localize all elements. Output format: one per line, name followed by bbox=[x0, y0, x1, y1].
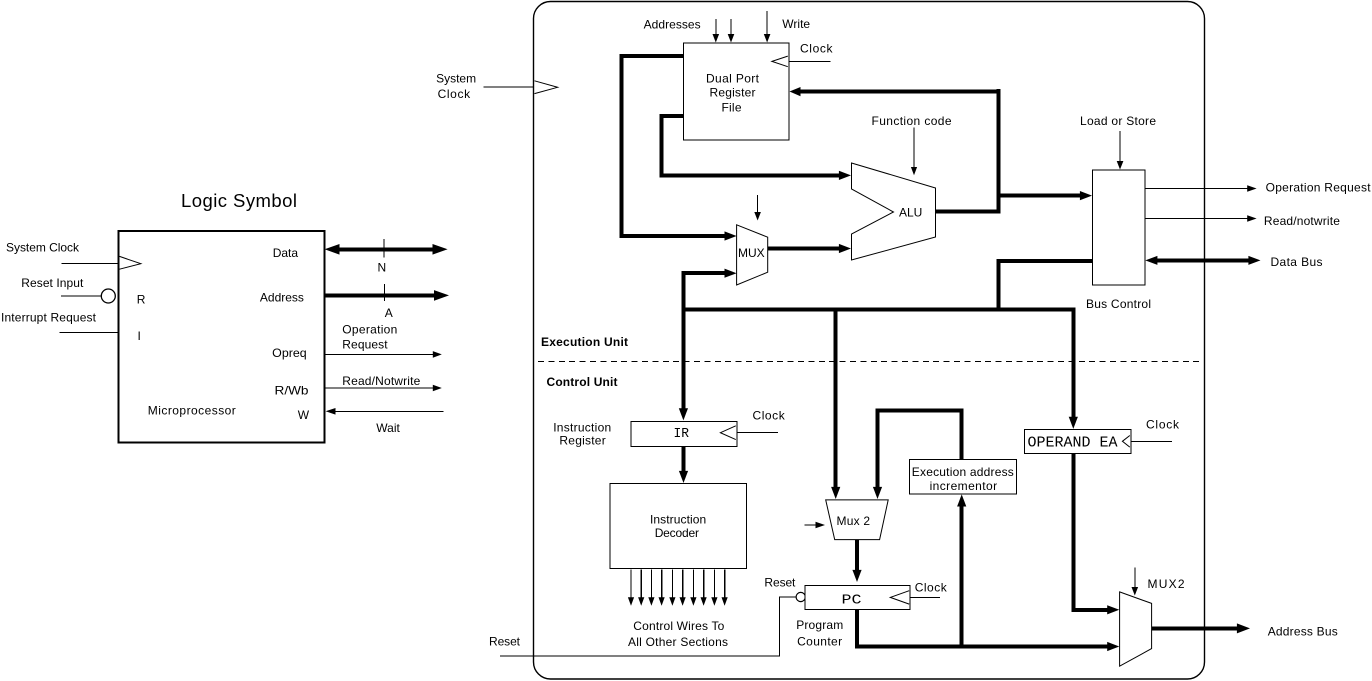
label Data Bus bbox=[1271, 255, 1323, 269]
svg-text:Data: Data bbox=[273, 246, 299, 260]
svg-text:Program: Program bbox=[796, 618, 843, 632]
reset wire to PC bbox=[500, 597, 796, 656]
pin label Opreq bbox=[272, 346, 307, 360]
label Microprocessor bbox=[148, 403, 236, 417]
wire clock to OPERAND EA bbox=[1131, 440, 1172, 442]
svg-text:Reset: Reset bbox=[764, 575, 796, 589]
svg-text:I: I bbox=[138, 329, 141, 343]
label Instruction Register bbox=[553, 420, 611, 447]
wire reset input to bubble bbox=[61, 295, 102, 297]
label Clock (IR) bbox=[753, 409, 786, 423]
svg-text:ALU: ALU bbox=[899, 206, 922, 220]
internal data bus trunk to IR bbox=[679, 271, 688, 420]
wire clock to register file bbox=[789, 60, 831, 62]
wire Mux 2 to PC bbox=[852, 540, 861, 582]
svg-text:Counter: Counter bbox=[797, 634, 842, 648]
label Program Counter bbox=[796, 618, 843, 648]
pin label Address bbox=[260, 291, 304, 305]
svg-text:MUX2: MUX2 bbox=[1148, 577, 1185, 591]
wire register file port A to MUX top input bbox=[622, 56, 737, 241]
title "Logic Symbol" bbox=[181, 190, 297, 211]
label MUX2 bbox=[1148, 577, 1185, 591]
label Read/Notwrite bbox=[342, 374, 420, 388]
svg-text:OPERAND EA: OPERAND EA bbox=[1028, 435, 1118, 452]
wire clock to IR bbox=[737, 432, 778, 434]
svg-text:Read/Notwrite: Read/Notwrite bbox=[342, 374, 420, 388]
bus width tick N bbox=[383, 239, 385, 257]
clock triangle on OPERAND EA bbox=[1122, 436, 1129, 448]
feedback trunk vertical bbox=[997, 89, 1001, 213]
wire incrementor loop to Mux 2 input B bbox=[873, 411, 962, 500]
wire IR to instruction decoder bbox=[679, 446, 688, 483]
svg-text:A: A bbox=[385, 306, 393, 320]
label Load or Store bbox=[1080, 114, 1156, 128]
label Operation Request (two lines) bbox=[342, 323, 397, 352]
operation request output arrow bbox=[1145, 185, 1257, 192]
wire internal bus to MUX bottom input bbox=[683, 269, 736, 278]
svg-text:Operation: Operation bbox=[342, 323, 397, 337]
svg-text:Reset: Reset bbox=[489, 634, 521, 648]
label Address Bus bbox=[1268, 625, 1338, 639]
mux2 select arrow (top) bbox=[1132, 567, 1139, 595]
wire MUX output to ALU bottom input bbox=[768, 244, 851, 253]
svg-text:Address Bus: Address Bus bbox=[1268, 625, 1338, 639]
svg-text:Address: Address bbox=[260, 291, 304, 305]
MUX2 block bbox=[1120, 592, 1152, 666]
data bus double arrow bbox=[325, 244, 448, 255]
microprocessor box U1 bbox=[119, 231, 325, 443]
wire OPERAND EA to MUX2 input A bbox=[1073, 454, 1119, 615]
wire PC output to MUX2 input B bbox=[857, 609, 1119, 651]
svg-text:Clock: Clock bbox=[915, 580, 948, 594]
svg-text:Reset Input: Reset Input bbox=[21, 276, 84, 290]
clock triangle on register file bbox=[772, 56, 788, 67]
label A bbox=[385, 306, 393, 320]
wire feedback to register file input bbox=[790, 87, 1001, 96]
wire PC output branch to incrementor bbox=[957, 494, 966, 648]
svg-text:File: File bbox=[722, 101, 742, 115]
ALU block bbox=[852, 163, 936, 260]
svg-text:R/Wb: R/Wb bbox=[275, 383, 309, 397]
address bus output arrow bbox=[1152, 623, 1250, 633]
wire internal bus to Mux 2 input A bbox=[831, 308, 840, 500]
svg-text:Instruction: Instruction bbox=[650, 513, 706, 527]
label Function code bbox=[872, 114, 952, 128]
svg-text:PC: PC bbox=[842, 592, 862, 608]
svg-text:Execution Unit: Execution Unit bbox=[541, 335, 628, 349]
mux2 select arrow (left) bbox=[804, 522, 825, 529]
label Clock (OPERAND EA) bbox=[1146, 417, 1180, 431]
register file block: Dual Port Register File bbox=[683, 43, 789, 140]
wire interrupt request to microprocessor bbox=[60, 332, 119, 334]
svg-text:System Clock: System Clock bbox=[6, 241, 80, 255]
svg-text:Instruction: Instruction bbox=[553, 420, 611, 434]
label Bus Control bbox=[1086, 297, 1151, 311]
opreq arrow bbox=[325, 351, 442, 358]
function code arrow into ALU bbox=[911, 127, 917, 175]
load or store arrow into bus control bbox=[1117, 131, 1124, 170]
read/notwrite output arrow bbox=[1145, 215, 1257, 222]
reset bubble on PC bbox=[796, 592, 805, 601]
svg-text:Clock: Clock bbox=[800, 42, 834, 56]
svg-text:Operation Request: Operation Request bbox=[1266, 181, 1372, 195]
address bus arrow bbox=[325, 290, 449, 301]
address input arrow 1 bbox=[713, 19, 720, 43]
label Wait bbox=[376, 421, 400, 435]
label Clock (register file) bbox=[800, 42, 834, 56]
IR register block bbox=[631, 421, 737, 446]
svg-text:W: W bbox=[298, 408, 310, 422]
control wire arrows (10) bbox=[628, 570, 728, 606]
label Write bbox=[782, 17, 810, 31]
svg-text:Interrupt Request: Interrupt Request bbox=[1, 311, 97, 325]
svg-text:Load or Store: Load or Store bbox=[1080, 114, 1156, 128]
svg-text:All Other Sections: All Other Sections bbox=[628, 635, 728, 649]
label Operation Request bbox=[1266, 181, 1372, 195]
wire clock to PC bbox=[910, 596, 940, 598]
svg-text:Dual Port: Dual Port bbox=[706, 72, 760, 86]
clock triangle on IR bbox=[720, 426, 735, 440]
pin label I bbox=[138, 329, 141, 343]
bus width tick A bbox=[384, 284, 386, 301]
svg-text:Write: Write bbox=[782, 17, 810, 31]
label Control Unit bbox=[547, 375, 618, 389]
svg-text:Clock: Clock bbox=[753, 409, 786, 423]
pin label Data bbox=[273, 246, 299, 260]
data bus double arrow bbox=[1145, 256, 1260, 265]
wire register file port B to ALU top input bbox=[661, 116, 851, 180]
svg-text:System: System bbox=[436, 72, 476, 86]
internal bus branch to OPERAND EA bbox=[1069, 308, 1078, 429]
svg-text:Opreq: Opreq bbox=[272, 346, 307, 360]
svg-text:IR: IR bbox=[674, 426, 690, 442]
ALU output wire to feedback trunk bbox=[936, 209, 1001, 213]
clock triangle on enclosure border bbox=[535, 81, 558, 94]
pin label R bbox=[137, 293, 146, 307]
svg-text:Logic Symbol: Logic Symbol bbox=[181, 190, 297, 211]
write input arrow bbox=[764, 11, 771, 43]
clock triangle on PC bbox=[890, 591, 909, 604]
label Reset (at PC) bbox=[764, 575, 796, 589]
label Read/notwrite bbox=[1264, 214, 1340, 228]
pin label W bbox=[298, 408, 310, 422]
svg-text:Execution address: Execution address bbox=[912, 465, 1014, 479]
label System Clock (left) bbox=[6, 241, 80, 255]
label Reset (external) bbox=[489, 634, 521, 648]
label Control Wires To All Other Sections bbox=[628, 619, 728, 649]
wait arrow (into box) bbox=[326, 408, 444, 415]
svg-text:Microprocessor: Microprocessor bbox=[148, 403, 236, 417]
instruction decoder block bbox=[610, 484, 747, 569]
label Execution Unit bbox=[541, 335, 628, 349]
wire ALU result to bus control bbox=[999, 191, 1093, 200]
svg-text:Control Wires To: Control Wires To bbox=[633, 619, 724, 633]
MUX block bbox=[737, 225, 768, 285]
svg-text:Request: Request bbox=[342, 337, 388, 351]
svg-text:Control Unit: Control Unit bbox=[547, 375, 618, 389]
svg-text:Wait: Wait bbox=[376, 421, 400, 435]
label N bbox=[378, 261, 387, 275]
svg-text:Function code: Function code bbox=[872, 114, 952, 128]
clock input triangle on microprocessor bbox=[120, 256, 141, 269]
OPERAND EA register block bbox=[1024, 429, 1130, 453]
svg-text:Addresses: Addresses bbox=[644, 18, 701, 32]
wire system clock to enclosure bbox=[484, 86, 534, 88]
label Addresses bbox=[644, 18, 701, 32]
label Interrupt Request bbox=[1, 311, 97, 325]
wire system clock to microprocessor bbox=[62, 262, 119, 264]
svg-text:Register: Register bbox=[559, 433, 605, 447]
read/notwrite arrow bbox=[325, 385, 442, 392]
svg-text:MUX: MUX bbox=[738, 246, 765, 260]
PC register block bbox=[805, 585, 910, 609]
svg-text:Read/notwrite: Read/notwrite bbox=[1264, 214, 1340, 228]
svg-text:incrementor: incrementor bbox=[930, 479, 998, 493]
enclosure rounded rectangle bbox=[534, 2, 1205, 680]
internal data bus: bus control down-link bbox=[999, 261, 1093, 311]
reset bubble on microprocessor bbox=[101, 289, 115, 303]
label Clock (PC) bbox=[915, 580, 948, 594]
svg-text:Clock: Clock bbox=[1146, 417, 1180, 431]
svg-text:Mux 2: Mux 2 bbox=[837, 514, 871, 528]
dashed unit divider bbox=[538, 361, 1203, 363]
svg-text:N: N bbox=[378, 261, 387, 275]
svg-text:Clock: Clock bbox=[438, 87, 472, 101]
svg-text:Decoder: Decoder bbox=[655, 526, 699, 540]
execution address incrementor block bbox=[910, 460, 1017, 494]
svg-text:Register: Register bbox=[710, 86, 756, 100]
pin label R/Wb bbox=[275, 383, 309, 397]
svg-text:R: R bbox=[137, 293, 146, 307]
svg-text:Data Bus: Data Bus bbox=[1271, 255, 1323, 269]
label Reset Input bbox=[21, 276, 84, 290]
svg-text:Bus Control: Bus Control bbox=[1086, 297, 1151, 311]
mux select arrow (top) bbox=[754, 195, 761, 221]
Mux 2 block bbox=[826, 500, 889, 540]
bus control block bbox=[1092, 170, 1145, 285]
internal data bus horizontal bbox=[683, 308, 1073, 312]
address input arrow 2 bbox=[728, 19, 735, 43]
label System Clock (two lines) bbox=[436, 72, 476, 102]
